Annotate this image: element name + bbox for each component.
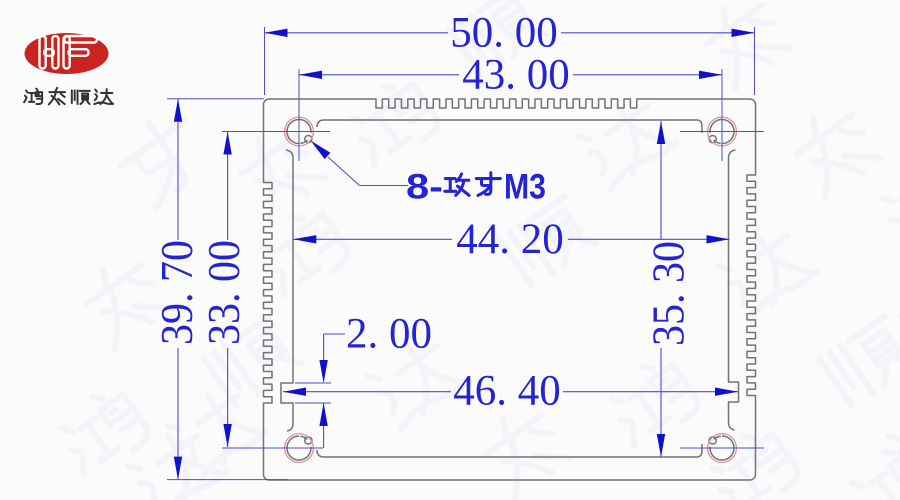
extension line 39.70 bottom [167, 479, 288, 481]
screw boss top-left [287, 120, 312, 144]
outer extruded profile outline with cooling fins [264, 99, 756, 480]
extension line 2.00 bottom [295, 402, 331, 404]
extension line 39.70 top [167, 98, 264, 100]
dimension texts [151, 9, 694, 414]
centerline hole BR horizontal [680, 447, 764, 449]
arrowhead 2.00 up [319, 403, 327, 426]
dim line 44.20 left segment [293, 238, 452, 240]
extension line 50.00 right [754, 27, 756, 95]
leader 8-M3 horizontal [360, 185, 409, 187]
arrowhead 35.30 bottom [657, 434, 665, 457]
red highlight circle hole TL [285, 117, 314, 146]
red highlight circle hole BL [285, 434, 314, 463]
dim line 50.00 left segment [265, 32, 449, 34]
arrowhead 43.00 right [699, 71, 722, 79]
svg-text:50. 00: 50. 00 [450, 9, 558, 56]
arrowhead 44.20 right [707, 235, 730, 243]
dim line 43.00 right segment [573, 74, 722, 76]
arrowhead 2.00 down [319, 360, 327, 383]
svg-text:8-: 8- [406, 168, 443, 207]
inner right wall with groove slot [729, 150, 739, 430]
inner left wall with groove slot [281, 150, 293, 431]
screw boss bottom-right [709, 436, 734, 460]
screw boss top-right [709, 120, 734, 144]
arrowhead 33.00 top [223, 132, 231, 155]
dim line 33.00 upper segment [227, 132, 229, 241]
red highlight circle hole BR [708, 434, 737, 463]
leader 2.00 horizontal [324, 333, 345, 335]
HF logo: solid red ellipse with white tube letters [25, 33, 109, 74]
label 8-攻牙M3 [406, 168, 546, 207]
arrowhead 33.00 bottom [223, 424, 231, 447]
arrowhead 43.00 left [299, 71, 322, 79]
dim line 43.00 left segment [299, 74, 459, 76]
extension/centerline 33.00 top + hole TL horizontal [222, 131, 330, 133]
svg-text:46. 40: 46. 40 [453, 368, 561, 415]
leader arrowhead 8-M3 [311, 141, 331, 160]
arrowhead 44.20 left [293, 235, 316, 243]
arrowhead 35.30 top [657, 121, 665, 144]
leader 8-M3 diagonal [328, 157, 360, 186]
dim line 2.00 upper tail [323, 334, 325, 360]
blue dimension lines [178, 33, 755, 480]
dim line 46.40 right segment [563, 391, 738, 393]
arrowhead 39.70 top [174, 99, 182, 122]
extension line 2.00 top [295, 382, 331, 384]
arrowhead 50.00 left [265, 29, 288, 37]
centerline hole TR horizontal [680, 131, 764, 133]
svg-text:2. 00: 2. 00 [346, 311, 432, 358]
svg-text:33. 00: 33. 00 [198, 240, 249, 345]
svg-text:35. 30: 35. 30 [643, 241, 694, 346]
svg-text:M3: M3 [504, 168, 546, 207]
dim line 35.30 lower segment [660, 348, 662, 457]
dim line 39.70 lower segment [177, 348, 179, 480]
arrowhead 39.70 bottom [174, 457, 182, 480]
extension/centerline hole TL vertical [298, 69, 300, 161]
dim line 2.00 lower tail [323, 403, 325, 448]
screw boss bottom-left [287, 436, 312, 460]
dim line 46.40 left segment [283, 391, 451, 393]
arrowhead 46.40 right [715, 388, 738, 396]
red highlight circle hole TR [708, 117, 737, 146]
svg-text:44. 20: 44. 20 [456, 216, 564, 263]
arrowhead 50.00 right [732, 29, 755, 37]
dim line 39.70 upper segment [177, 99, 179, 240]
dim line 50.00 right segment [561, 32, 755, 34]
extension line 50.00 left [264, 27, 266, 95]
svg-text:39. 70: 39. 70 [151, 240, 202, 345]
dim line 33.00 lower segment [227, 348, 229, 447]
dim line 35.30 upper segment [660, 121, 662, 240]
arrowhead 46.40 left [283, 388, 306, 396]
inner bottom wall [317, 444, 702, 457]
extension/centerline hole TR vertical [721, 69, 723, 161]
svg-text:43. 00: 43. 00 [462, 51, 570, 98]
dim line 44.20 right segment [568, 238, 730, 240]
logo text 鸿发顺达 [24, 88, 113, 105]
inner top wall [317, 120, 702, 133]
extension/centerline 33.00 bottom + hole BL horizontal [222, 447, 323, 449]
blue extension and center lines [167, 27, 764, 480]
